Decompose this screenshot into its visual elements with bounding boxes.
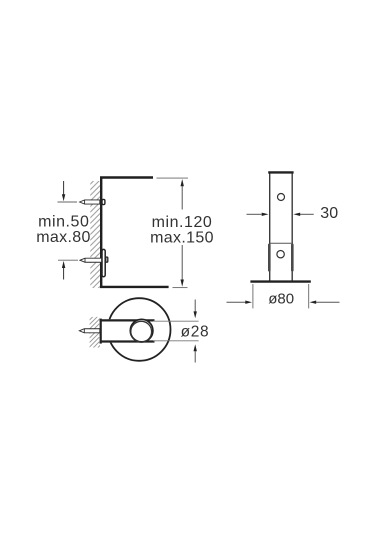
post left side line (front view) [269, 174, 271, 282]
svg-text:max.150: max.150 [150, 229, 214, 246]
extension line base left [252, 284, 254, 308]
dimension ø80 left arrow [227, 301, 247, 303]
dimension arrow min.50 bottom [63, 268, 65, 280]
dimension 30 left arrow [247, 213, 262, 215]
sleeve right bar [291, 245, 294, 270]
sleeve top edge [270, 242, 291, 244]
arm top edge [100, 319, 155, 321]
rosette circle (top view) [108, 298, 171, 361]
svg-text:ø80: ø80 [268, 290, 294, 307]
screw S1 (upper) [80, 200, 100, 204]
svg-text:max.80: max.80 [36, 229, 91, 246]
lower mounting capsule plate [102, 249, 105, 276]
extension line base right [308, 284, 310, 308]
tube end inner circle [131, 321, 152, 342]
extension line lower screw [58, 259, 78, 261]
extension line bracket bottom [173, 287, 188, 289]
svg-text:min.50: min.50 [38, 214, 89, 231]
post top cap [268, 171, 293, 173]
wall hatching (side view) [90, 181, 100, 288]
arm wall plate edge [100, 319, 102, 344]
wall hatching (top view) [90, 317, 100, 348]
tube hidden line bottom [153, 340, 199, 342]
extension line upper screw [58, 201, 78, 203]
extension line bracket top [157, 177, 189, 179]
dimension ø28 top arrow [194, 300, 196, 313]
base plate [250, 280, 310, 282]
tube hidden line top [153, 320, 199, 322]
screw S2 (lower) [80, 258, 102, 262]
dimension 30 right arrow [293, 213, 300, 216]
dimension arrow min.120 top [181, 179, 184, 186]
post right side line (front view) [291, 174, 293, 282]
dimension arrow min.120 bottom [181, 245, 183, 280]
top screw boss [102, 199, 105, 204]
upper hole [278, 194, 285, 201]
lower hole [277, 251, 284, 258]
svg-text:30: 30 [320, 205, 338, 222]
dimension ø80 right arrow [310, 301, 317, 304]
bracket profile (side view) [101, 178, 168, 287]
arm body fill (top view) [100, 319, 153, 342]
lower screw boss [106, 257, 108, 262]
dimension arrow min.50 top [63, 181, 65, 195]
arm bottom edge [100, 340, 155, 342]
svg-text:ø28: ø28 [181, 323, 210, 340]
sleeve left bar [268, 245, 271, 270]
screw S3 (top view) [79, 329, 100, 333]
tube end outer circle [130, 319, 153, 342]
dimension ø28 bottom arrow [194, 344, 197, 351]
